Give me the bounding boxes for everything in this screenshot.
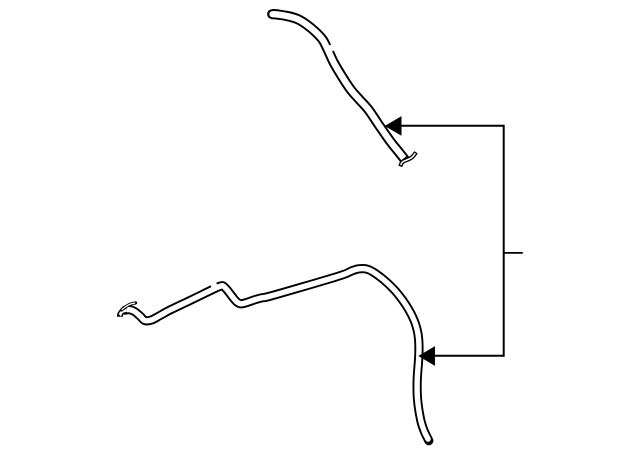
bracket tick (part leader stub) xyxy=(504,252,523,254)
hose H2 (lower washer hose tube) xyxy=(126,269,429,441)
callout arrow A1 (points to upper hose) xyxy=(385,116,504,136)
hose H1 end curl fitting xyxy=(400,152,416,166)
hose H1 (upper washer hose tube) xyxy=(267,9,405,160)
hose H2 break mark (gap in upper outline) xyxy=(210,282,217,288)
hose H2 tip barb xyxy=(122,303,136,310)
hose H2 left tip hook xyxy=(120,310,127,316)
callout bracket vertical line xyxy=(503,125,505,357)
callout arrow A2 (points to lower hose) xyxy=(418,346,503,366)
hose H1 break mark (gap in upper-right outline) xyxy=(329,44,335,51)
